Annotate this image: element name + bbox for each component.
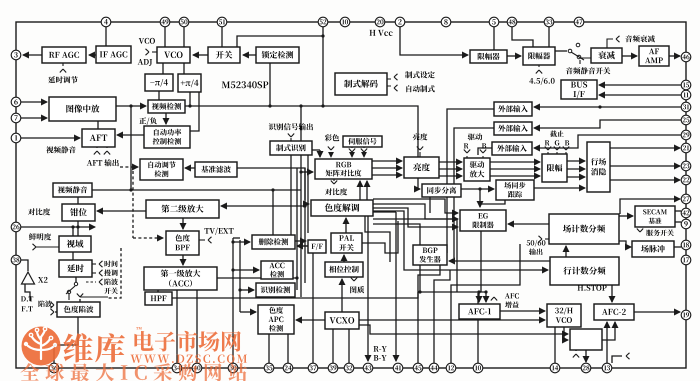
wire pin10 up to AFC row [477,293,479,363]
label 时间 [104,260,117,267]
wire ext2 left stub [454,128,494,258]
pin 52 (top) [318,17,328,27]
wire pin37 to F/F [312,253,314,363]
junction bus 2nd amp [303,204,306,207]
wire RGB top stub h [308,149,320,151]
block +pi/4 [178,74,201,92]
wire IF AGC to RF AGC [89,54,96,56]
pin 36 (bottom) [49,363,59,373]
wire +pi/4 to video bus [189,92,191,106]
wire EG bottom down [480,231,482,292]
pin 25 (right) [681,115,691,125]
block first amp ACC 第一级放大 [144,267,217,290]
wire col2 [239,240,241,312]
wire stair c [362,221,398,253]
wire BGP top to demod bus [373,224,420,245]
wire SECAM to pin9 [675,221,681,223]
wire DT fork join [55,311,57,313]
block line counter 行计数分频 [550,257,619,285]
fork cutoff R [545,147,551,151]
block attenuator 衰减 [591,48,622,63]
block video mute 视频静音 [53,183,92,197]
wire 基准滤波 east to bus [237,168,305,200]
wire box to pin28 [585,350,587,362]
junction contrast bus [299,170,302,173]
wire VCO to +pi/4 [183,63,185,74]
block X-coupling (unlabeled) [570,329,602,350]
wire VCXO aux to coupling box [359,325,568,334]
pin 20 (top) [375,17,385,27]
pin 10 (top) [340,17,350,27]
wire video bus east [185,106,420,189]
pin 35 (bottom) [264,363,274,373]
wire pin39 to VCXO [332,329,334,363]
pin 6 (left) [11,97,21,107]
label 截止 [550,130,564,137]
wire ext1 left stub [447,109,494,253]
wire 驱动放大 to 限幅 b [490,175,540,177]
fork F.T notch [51,309,55,315]
wire pin31 to ext input1 [534,106,681,108]
junction ext1 [598,105,601,108]
wire 32/H VCO to box [564,327,568,340]
label 音频静音开关 [566,67,610,74]
pin 13 (bottom) [602,363,612,373]
label 延时调节 [48,76,78,83]
wire AFC-2 to pin19 [634,311,680,313]
block field pulse 场脉冲 [632,241,674,257]
junction RGB top-in [306,148,309,151]
label R (cutoff) [545,140,550,145]
wire pin26 east [21,226,95,228]
wire pin35 to APC [268,334,270,363]
block chroma APC detect 色度APC检测 [258,305,294,334]
block switch 开关 [208,47,240,63]
label D.T [21,296,33,301]
wire 行场消隐 to pin23 [610,165,680,167]
wire sync sep to field track [461,188,494,190]
fork delay-adjust input [60,69,66,73]
wire bus vertical a [296,168,298,290]
block -pi/4 [145,74,173,91]
wire limiter2 bottom stub [538,65,540,67]
fork box bottom [573,354,579,358]
block video out 视域 [59,236,91,252]
fork 对比度 [331,181,337,185]
pin 17 (right) [681,255,691,265]
label R (drive) [464,143,469,148]
block RF AGC [42,47,86,63]
wire 第二级放大 to 色度BPF [182,218,184,229]
fork cutoff G [554,147,560,151]
block IF AGC [96,46,131,63]
label G (cutoff) [555,140,560,145]
wire into AFC-1 b [485,292,487,302]
junction del top [271,188,274,191]
block auto adjust detect 自动调节检测 [140,159,183,180]
wire lock-detect to switch [243,54,256,56]
wire stair a [373,204,458,219]
wire bus to 第二级放大 [221,205,305,207]
fork 图质 [351,278,357,282]
junction mute line [129,188,132,191]
junction +pi/4 bus [188,104,191,107]
label 图质 [350,286,364,293]
block brightness 亮度 [404,157,439,178]
wire 驱动放大 to 限幅 r [490,161,540,163]
wire 彩色 to RGB [330,152,332,157]
fork cutoff B [563,147,569,151]
watermark logo circle [22,327,61,366]
label B (cutoff) [565,140,569,145]
label H Vcc [369,30,392,36]
wire col2 to APC [240,311,256,313]
pin 7 (left) [11,113,21,123]
wire 第一级放大 out [217,277,297,279]
label 输出 (50/60) [529,248,542,255]
block sync sep 同步分离 [422,184,461,197]
pin 5 (top) [489,17,499,27]
wire sync to EG [479,189,481,207]
block delay 延时 [59,260,92,277]
block limiter2 限幅器 [523,47,555,65]
wire pin7 to picture IF [21,117,47,119]
wire RGB to 亮度 b [372,174,402,176]
block AF AMP [639,46,669,66]
wire pin43 drop R-Y [367,216,369,361]
watermark 维库 brand [63,333,124,362]
wire 相位控制 to PAL [343,255,345,262]
label M52340SP [222,81,269,88]
junction lock bus [268,104,271,107]
fork AFT out b [104,151,110,155]
wire 限幅 to 行场消隐 r [567,160,585,162]
fork 制式设定 [394,74,398,80]
switch delay contacts [66,282,78,300]
wire 行计数分频 to 场计数分频 [565,246,567,257]
fork 陷波sw [99,279,103,285]
wire box stub [575,350,577,351]
wire pin32 to VCXO [348,329,350,363]
block system ident 制式识别 [270,141,312,155]
pin 3 (left) [11,50,21,60]
wire pin4 to IF AGC top [105,27,107,46]
wire pin13 to AFC-2 [606,322,608,363]
fork 色度陷波 top [77,294,83,298]
wire attenuator to AF AMP [622,55,637,57]
pin 15 (right) [681,80,691,90]
fork drive R [464,150,470,154]
block 32/H VCO [547,304,581,327]
junction 1st amp out [295,276,298,279]
watermark WWW.DZSC.COM [131,354,248,363]
wire 26 to 视域 [72,227,74,236]
pin 37 (bottom) [308,363,318,373]
wire 行计数分频 to AFC-2 top [611,285,613,302]
junction bus b top [299,104,302,107]
block PAL switch PAL开关 [331,233,362,253]
pin 14 (bottom) [550,363,560,373]
block H/V blanking 行场消隐 [587,142,610,192]
wire pin14 up to 32/H VCO [554,327,556,363]
label 制式设定 [405,71,435,78]
junction afc a [477,290,480,293]
block VCXO [325,312,359,329]
block system decoder 制式解码 [335,73,387,95]
block ext input3 外部输入 [492,142,532,155]
wire limiter2 to mute switch [555,50,567,52]
wire F/F to 删除检测 [297,245,308,247]
fork 亮度 [417,147,423,151]
wire 场脉冲 to pin18 [674,246,681,248]
label 视频静音 (AFT) [46,146,76,153]
pin 27 (right) [681,194,691,204]
block AFC-2 [594,304,634,320]
block BUS I/F [561,80,597,99]
wire VCXO to 相位控制 [341,279,343,312]
pin 42 (right) [681,208,691,218]
wire bus into RGB left [301,171,313,173]
block clamp 钳位 [62,204,95,221]
block drive amp 驱动放大 [464,158,490,181]
wire bus vertical d [307,150,309,233]
block chroma notch 色度陷波 [57,302,100,317]
wire AFT bottom stubs [97,147,107,148]
block AFC-1 [459,304,500,319]
wire 色度解调 to RGB b [366,181,368,200]
wire dashed to 陷波 fork [86,281,96,283]
wire bus vertical b [300,106,302,297]
wire pin29 to ext input3 [534,135,681,148]
wire pin38 to crystal [21,260,28,271]
block ext input2 外部输入 [494,122,532,135]
block picture IF 图像中放 [49,97,116,121]
pin 49 (top) [160,17,170,27]
wire 50/60 fork to counter [545,238,549,240]
watermark 全球最大IC采购网站 [20,363,247,381]
wire delay to 时间 fork [92,263,96,265]
block ACC detect ACC检测 [261,261,293,279]
block field sync track 场同步跟踪 [496,180,534,200]
wire RGB to 亮度 g [372,167,402,169]
wire pin30 column join [233,237,240,239]
label AFC (gain) [505,293,519,298]
fork D.T notch [51,302,55,308]
wire pin1 to AFT [21,137,80,139]
wire stair h [365,216,390,262]
wire AF AMP to pin46 [669,55,680,57]
wire 亮度 fork to box [419,152,421,157]
pin 23 (right) [681,161,691,171]
wire 场计数分频 top to pin27 [620,199,680,214]
junction picture IF out [129,104,132,107]
watermark 电子市场网 [134,331,240,352]
fork 自动制式 [394,85,398,91]
block limiter 限幅 [542,154,567,182]
wire field track down [481,200,505,204]
label 增益 [505,301,519,308]
fork pin13 ext [626,353,630,359]
wire 亮度 to 驱动放大 r [439,161,462,163]
wire pin24 to APC [287,334,289,363]
block EG limiter EG限制器 [460,210,506,231]
block ident detect 识别检测 [256,283,295,297]
wire 行计数分频 to BGP [449,260,550,262]
wire sync sep bottom stub [429,196,431,213]
block ext input1 外部输入 [494,102,532,116]
pin 22 (right) [681,175,691,185]
wire cutoff forks to 限幅 [548,152,566,154]
wire pin50 to VCO top [183,27,185,47]
label 对比度 (RGB) [325,188,347,195]
block BGP generator BGP发生器 [413,245,447,265]
wire APC right up to +pi/4 [190,92,199,131]
pin 9 (right) [681,219,691,229]
fork 时间 [99,261,103,267]
wire col to 删除检测 [233,241,250,243]
wire drive forks to box [467,156,483,158]
wire 色度解调 to RGB a [359,181,361,200]
wire pin45 up [418,265,440,363]
junction 26a [71,225,74,228]
wire long input to 行计数分频 [373,211,548,270]
wire 限幅 to 行场消隐 b [567,176,585,178]
wire pin52 down and branch to switch [237,27,323,106]
fork TV/EXT [208,237,212,243]
wire attenuator top to fork [607,39,613,48]
junction bus demod [303,202,306,205]
wire pin6 to picture IF [21,101,47,103]
block chroma BPF 色度BPF [166,231,199,255]
junction afc b [484,290,487,293]
block APC detect 自动功率控制检测 [144,126,190,148]
label 4.5/6.0 [529,78,554,85]
wire bus to 色度解调 [305,203,309,205]
wire 钳位 to 视域 via bus [77,221,79,236]
wire 第一级放大 to HPF [157,290,159,292]
wire decoder to forks [387,79,391,86]
wire stair b [373,208,458,227]
wire 制式识别 down bus [290,155,292,235]
wire RFAGC to fork [62,63,64,66]
wire -pi/4 to video detect [158,91,160,100]
wire switch row bottom [80,296,108,298]
pin 2 (top) [395,17,405,27]
pin 34 (bottom) [172,363,182,373]
wire pin40 to 第一级放大 [196,290,198,363]
pin 51 (top) [217,17,227,27]
wire pin33 to limiter2 top [548,27,550,47]
wire pin34 to 第一级放大 [176,290,178,363]
block limiter1 限幅器 [470,50,507,63]
wire 色度BPF to 第一级放大 [182,255,184,265]
pin 30 (bottom) [228,363,238,373]
label VCO [139,38,155,44]
label 自动制式 [406,85,434,92]
label R-Y [374,346,387,352]
wire 伺服 forks to RGB a [351,154,353,157]
fork 彩色 [328,147,334,151]
wire 删除检测 top [272,190,274,235]
wire BGP bottom to AFC row [419,265,421,292]
label 彩色 [325,134,340,141]
pin 21 (right) [681,143,691,153]
wire pin51 to switch top [221,27,223,47]
wire 基准滤波 to 自动调节检测 [185,167,195,169]
wire VCXO to 32/H VCO [359,319,545,321]
fork 50/60 out [539,236,543,242]
label 正/负 [139,117,156,125]
junction col del [231,240,234,243]
junction pin52 branch [321,34,324,37]
pin 39 (bottom) [328,363,338,373]
wire ext3 left stub [478,148,492,155]
wire AFT top to picture IF [97,121,99,129]
wire pin13 fork [612,356,622,363]
pin 40 (bottom) [192,363,202,373]
wire pin2 to limiter1 [400,27,468,55]
junction 26b [76,225,79,228]
wire delay to 摱调 fork [92,272,96,274]
pin 11 (right) [681,90,691,100]
wire contrast line to RGB [131,189,301,191]
wire 第二级放大 to 钳位 [97,210,146,212]
wire video detect to APC detect [165,113,167,124]
wire AFC row horizontal [418,291,487,293]
wire 伺服 forks to RGB b [363,154,365,157]
block RGB matrix 矩阵对比度 [315,159,372,179]
pin 38 (left) [11,255,21,265]
wire pin25 to ext input2 [534,120,681,128]
pin 19 (right) [681,310,691,320]
wire 鲜明度 fork to 视域 [36,246,59,248]
wire lock-detect bottom to bus [269,63,271,106]
junction bus 323 [321,104,324,107]
label 陷波 (DT/FT) [38,300,51,307]
wire 色度陷波 to pin36 [54,317,78,363]
wire pin11 to BUS I/F [599,94,681,96]
label ADJ [138,59,152,66]
wire 驱动放大 to 限幅 g [490,168,540,170]
junction col2 ident [238,288,241,291]
pin 47 (top) [574,17,584,27]
wire 伺服 box stubs [352,147,364,148]
label 陷波 (switch) [104,278,117,285]
label TV/EXT [204,228,233,235]
crystal X2 [22,272,35,284]
label 对比度 (left) [28,208,50,215]
label 音频衰减 [625,35,654,42]
pin 18 (right) [681,240,691,250]
block delete detect 删除检测 [252,235,295,249]
watermark TM mark [136,327,142,329]
pin 45 (bottom) [413,363,423,373]
wire APC detect to AFT [117,134,144,136]
block SECAM ref SECAM基准 [635,206,675,227]
wire stair g [373,219,457,292]
wire PAL to 色度解调 [345,218,347,233]
label X2 [38,277,47,283]
junction sync out [478,187,481,190]
wire stair d [302,245,326,247]
label AFT 输出 [87,159,119,166]
wire RGB to 亮度 r [372,160,402,162]
block field counter 场计数分频 [549,214,619,244]
label 识别信号输出 [269,123,313,130]
pin 33 (top) [544,17,554,27]
label B (drive) [482,143,486,148]
wire 限幅 to 行场消隐 g [567,168,585,170]
